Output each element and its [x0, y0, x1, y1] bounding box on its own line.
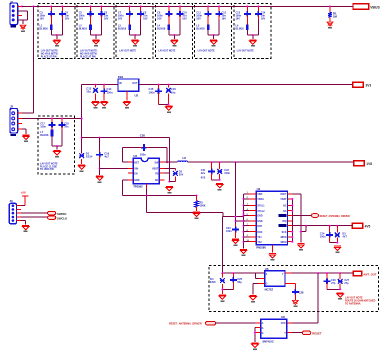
svg-text:30V: 30V — [179, 174, 184, 177]
wire — [159, 103, 169, 105]
svg-text:10n: 10n — [64, 125, 69, 128]
capacitor C23 — [235, 224, 237, 228]
svg-text:NC: NC — [155, 179, 159, 182]
ground (R1) — [327, 22, 333, 26]
ground (box 6) — [249, 39, 256, 40]
svg-text:LAY-OUT NOTE:: LAY-OUT NOTE: — [80, 50, 98, 53]
port RESET_ANT — [311, 214, 318, 218]
svg-text:BLM18: BLM18 — [40, 134, 49, 137]
node C24 top — [329, 225, 331, 227]
capacitor C25 — [230, 279, 237, 281]
wire cap join box 5 — [208, 34, 219, 36]
ground (box 3) — [132, 39, 139, 40]
node C17 top — [51, 117, 53, 119]
wire U6 gnd pins — [256, 327, 261, 329]
bead FB3 — [128, 24, 131, 30]
svg-text:VOUT: VOUT — [280, 194, 287, 196]
capacitor C14 — [255, 13, 262, 15]
port RESET — [302, 331, 311, 335]
node C19-pin2 — [99, 168, 101, 170]
node C7 top — [129, 5, 131, 7]
ground (C14) — [101, 101, 108, 102]
svg-text:10u: 10u — [86, 89, 91, 93]
wire — [254, 328, 256, 342]
svg-text:1M: 1M — [333, 15, 338, 19]
node C14 top — [103, 84, 105, 86]
node 1V8 to U4 — [235, 161, 237, 163]
node C18 top — [61, 117, 63, 119]
svg-text:J3: J3 — [10, 199, 14, 203]
svg-text:RESET: RESET — [312, 332, 322, 336]
ground (U2) — [123, 101, 130, 102]
wire — [221, 217, 223, 274]
ground (J3) — [22, 225, 29, 226]
wire row1 — [244, 193, 249, 195]
capacitor C27 — [338, 279, 343, 284]
ground (box 1) — [53, 39, 60, 40]
svg-text:BLM18: BLM18 — [118, 28, 127, 31]
capacitor C28 — [292, 291, 299, 293]
svg-text:NO VIAS BETW.: NO VIAS BETW. — [80, 52, 98, 55]
wire VBST to D2 — [164, 168, 175, 170]
decoupling group box 6 — [234, 4, 271, 59]
node C27 top — [339, 272, 341, 274]
wire pin4 — [18, 19, 28, 21]
svg-text:LAY-OUT NOTE: LAY-OUT NOTE — [198, 50, 215, 53]
ground (C24 D3) — [334, 246, 341, 247]
wire — [292, 225, 352, 227]
pin EPAD — [145, 184, 147, 189]
port SWDIO — [48, 211, 56, 214]
wire — [25, 221, 27, 225]
svg-text:TPS562: TPS562 — [133, 184, 143, 188]
ground (J1) — [20, 25, 26, 29]
svg-text:16V: 16V — [196, 17, 201, 20]
svg-text:U4: U4 — [257, 187, 261, 191]
wire — [99, 160, 101, 175]
capacitor C23 — [232, 229, 239, 231]
svg-text:RESET_ANTENNA_DRIVER: RESET_ANTENNA_DRIVER — [320, 215, 350, 218]
wire — [22, 20, 24, 24]
wire — [252, 283, 254, 294]
svg-text:1V8: 1V8 — [366, 162, 372, 166]
svg-text:NC7SZ: NC7SZ — [265, 287, 274, 291]
bead FB1 — [50, 24, 53, 30]
pin U6 — [287, 322, 292, 324]
antenna matching box — [209, 266, 379, 312]
node C13 top — [246, 5, 248, 7]
node D3 top — [336, 225, 338, 227]
svg-text:SWDIO: SWDIO — [57, 212, 67, 216]
wire cap leads box 3 — [129, 6, 131, 12]
svg-text:C28: C28 — [299, 291, 304, 294]
svg-text:EN: EN — [134, 172, 138, 175]
svg-text:16V: 16V — [143, 17, 148, 20]
wire cap leads box 1 — [50, 6, 52, 12]
svg-text:U3: U3 — [133, 154, 137, 158]
capacitor C10 — [176, 13, 183, 15]
ground (U5) — [250, 295, 257, 296]
svg-text:4V5: 4V5 — [365, 225, 371, 229]
svg-text:VBAT: VBAT — [280, 198, 287, 201]
ground (U4 rail) — [240, 249, 247, 250]
node C16 top — [168, 84, 170, 86]
connector J2 (4-pin header, mid-left) — [10, 109, 18, 134]
svg-text:100n: 100n — [40, 125, 46, 128]
wire — [292, 193, 301, 195]
wire — [164, 161, 177, 163]
svg-text:A: A — [266, 273, 268, 276]
wire to ground — [56, 35, 58, 39]
svg-text:C20: C20 — [140, 134, 146, 138]
node C8 top — [140, 5, 142, 7]
svg-text:16V: 16V — [118, 17, 123, 20]
port VBUS — [353, 4, 369, 10]
node to driver — [317, 272, 319, 274]
svg-text:FB: FB — [155, 172, 158, 175]
wire cap join box 2 — [91, 34, 102, 36]
wire VIN to C19 node — [100, 168, 129, 170]
svg-text:NC: NC — [283, 205, 287, 207]
wire — [82, 84, 118, 86]
ground (C13) — [92, 101, 99, 102]
wire inner loop right vertical — [166, 148, 168, 163]
svg-text:TX2: TX2 — [257, 242, 262, 244]
ground (box 4) — [171, 39, 178, 40]
node C6 top — [101, 5, 103, 7]
capacitor C11 — [205, 13, 212, 15]
op-amp U6 reset driver — [261, 319, 287, 338]
wire to ground — [213, 35, 215, 39]
pin U4 EPAD — [272, 245, 274, 253]
wire cap bottoms box 1 — [50, 16, 52, 25]
svg-text:IN: IN — [119, 82, 122, 85]
svg-text:22u: 22u — [201, 172, 206, 175]
port 4V5 — [352, 223, 362, 228]
connector J3 (5-pin) — [9, 203, 16, 223]
ground (D1) — [78, 165, 85, 166]
wire — [330, 242, 338, 244]
capacitor C21 — [208, 171, 215, 173]
svg-text:VBUS: VBUS — [370, 6, 380, 10]
capacitor C26 — [323, 280, 330, 282]
svg-text:GND: GND — [134, 179, 140, 182]
svg-text:+5V: +5V — [21, 191, 26, 195]
svg-text:RXN: RXN — [257, 232, 262, 234]
node left vertical feed — [33, 5, 35, 7]
ground (U6) — [251, 343, 258, 344]
wire cap leads box 6 — [246, 6, 248, 12]
svg-text:ANT_OUT: ANT_OUT — [363, 272, 376, 276]
svg-text:27p: 27p — [344, 282, 349, 285]
node C13 top — [95, 84, 97, 86]
wire — [253, 282, 258, 284]
wire cap bottoms box 3 — [129, 16, 131, 25]
wire EN vertical — [122, 180, 124, 196]
wire to ground — [173, 35, 175, 39]
svg-text:NO VIAS BETW.: NO VIAS BETW. — [41, 52, 59, 55]
svg-text:PN5180: PN5180 — [256, 245, 266, 249]
capacitor C22 (polarized) — [217, 169, 222, 174]
svg-text:RESET_ANTENNA_DRIVER: RESET_ANTENNA_DRIVER — [169, 322, 202, 325]
node C21 top — [211, 161, 213, 163]
decoupling group box 7 — [38, 116, 75, 174]
wire to U4 gnd rail — [236, 220, 244, 222]
wire — [327, 288, 340, 290]
wire to ground — [95, 35, 97, 39]
svg-text:BLM18: BLM18 — [40, 28, 49, 31]
svg-text:A: A — [262, 322, 264, 325]
node R1 top — [329, 5, 331, 7]
node RST tie — [305, 225, 307, 227]
wire — [139, 84, 353, 86]
ground (C21 C22) — [216, 183, 223, 184]
wire gnd rail jog — [222, 212, 224, 216]
svg-text:IRQ: IRQ — [282, 221, 286, 223]
wire — [292, 215, 311, 217]
svg-text:G: G — [262, 332, 264, 335]
wire — [21, 220, 26, 222]
svg-text:RXP: RXP — [257, 226, 262, 228]
wire cap join box 6 — [247, 34, 258, 36]
capacitor C20 (boot) — [143, 144, 145, 151]
wire — [82, 137, 170, 139]
capacitor C6 — [98, 13, 105, 15]
svg-text:GND: GND — [257, 221, 262, 223]
svg-text:16V: 16V — [236, 17, 241, 20]
capacitor C7 — [126, 13, 133, 15]
capacitor C4 — [59, 13, 66, 15]
diode D4 — [220, 278, 225, 283]
wire R1 lead — [329, 6, 331, 12]
svg-text:100n: 100n — [140, 152, 146, 156]
pin U2 ground — [126, 91, 128, 100]
svg-text:100n: 100n — [149, 90, 155, 94]
svg-text:BLM18: BLM18 — [196, 28, 205, 31]
diode D2 — [173, 171, 178, 176]
wire — [81, 85, 83, 153]
wire — [291, 272, 353, 274]
svg-text:LAY-OUT NOTE: LAY-OUT NOTE — [119, 50, 136, 53]
port 3V3 — [353, 82, 364, 87]
wire — [300, 194, 302, 243]
svg-text:BST: BST — [134, 161, 139, 164]
wire cap bottoms box 4 — [168, 16, 170, 25]
wire — [52, 145, 62, 147]
port SWCLK — [48, 216, 56, 219]
capacitor C16 (polarized) — [166, 88, 171, 93]
wire U5 vcc tie — [255, 273, 257, 278]
svg-text:SCK: SCK — [282, 232, 287, 234]
svg-text:U5: U5 — [265, 267, 269, 271]
svg-text:NC: NC — [283, 211, 287, 213]
diode D1 — [79, 153, 84, 158]
svg-text:FB1: FB1 — [118, 75, 124, 79]
node C10 top — [179, 5, 181, 7]
wire outer loop right vertical — [168, 138, 170, 182]
wire — [292, 332, 303, 334]
ground (box 7) — [54, 150, 61, 151]
node R2 top — [196, 195, 198, 197]
decoupling group box 5 — [195, 4, 232, 59]
wire — [216, 322, 256, 324]
pin U5 gnd — [258, 282, 265, 284]
svg-text:J2: J2 — [10, 104, 14, 108]
wire EPAD down — [145, 189, 147, 196]
capacitor C17 — [49, 124, 56, 126]
svg-text:SN74LVC: SN74LVC — [262, 340, 274, 344]
wire — [291, 199, 293, 242]
node C11 top — [207, 5, 209, 7]
ferrite/regulator U2 — [118, 79, 139, 91]
op-amp U5 buffer — [265, 271, 285, 287]
ground (box 2) — [93, 39, 100, 40]
svg-text:16V: 16V — [65, 17, 70, 20]
port RESET_ANT_DRV — [206, 321, 216, 325]
resistor R2 — [195, 201, 199, 207]
svg-text:100n: 100n — [107, 90, 113, 94]
svg-text:BLM18: BLM18 — [79, 28, 88, 31]
wire gnd rail — [147, 211, 223, 213]
ground (R2) — [193, 212, 200, 213]
svg-text:U6: U6 — [281, 315, 285, 319]
svg-text:4V7: 4V7 — [342, 236, 347, 239]
svg-text:ESD: ESD — [210, 280, 216, 284]
wire U4 left pin ties — [243, 198, 245, 200]
diode D3 — [335, 233, 340, 238]
capacitor C12 — [216, 13, 223, 15]
capacitor C3 — [48, 13, 55, 15]
svg-text:16V: 16V — [104, 17, 109, 20]
node C3 top — [50, 5, 52, 7]
node D2 anode — [168, 181, 170, 183]
svg-text:XTAL2: XTAL2 — [257, 210, 265, 213]
wire U5 out — [285, 272, 291, 274]
wire gnd rail to U4 — [223, 216, 244, 218]
pin U5 left2 — [260, 277, 265, 279]
node C14 top — [257, 5, 259, 7]
svg-text:16V: 16V — [40, 17, 45, 20]
wire EN — [123, 179, 129, 181]
op-amp U3 buck converter IC — [133, 158, 159, 184]
svg-text:GND: GND — [257, 216, 262, 218]
wire — [235, 162, 237, 224]
svg-text:U2: U2 — [135, 94, 139, 98]
wire cap leads box 5 — [207, 6, 209, 12]
bead FB2 — [89, 24, 92, 30]
decoupling group box 2 — [77, 4, 114, 59]
wire 1V8 rail — [188, 161, 354, 163]
wire top VBUS bus — [22, 5, 353, 7]
wire — [122, 147, 167, 149]
svg-text:4u7: 4u7 — [104, 155, 109, 159]
wire cap bottoms box 2 — [90, 16, 92, 25]
wire — [222, 272, 264, 274]
svg-text:TO VDD PIN: TO VDD PIN — [40, 168, 54, 171]
ground (U4 pad) — [269, 253, 276, 254]
capacitor C19 — [96, 154, 103, 156]
svg-text:OUT: OUT — [132, 82, 138, 85]
svg-text:SS14: SS14 — [86, 155, 93, 159]
wire U6 out1 — [292, 322, 318, 324]
wire — [21, 212, 48, 214]
bead FB6 — [246, 24, 249, 30]
svg-text:16V: 16V — [261, 17, 266, 20]
node C26 top — [326, 272, 328, 274]
capacitor C5 — [87, 13, 94, 15]
svg-text:MOSI: MOSI — [281, 242, 287, 244]
svg-text:16V: 16V — [79, 17, 84, 20]
capacitor C9 — [165, 13, 172, 15]
svg-text:6V3: 6V3 — [201, 177, 206, 180]
wire — [22, 112, 34, 114]
wire — [21, 205, 25, 207]
bead FB5 — [207, 24, 210, 30]
svg-text:100n: 100n — [224, 172, 230, 175]
svg-text:G: G — [266, 283, 268, 286]
node D4 top — [221, 272, 223, 274]
svg-text:LAY-OUT NOTE:: LAY-OUT NOTE: — [41, 50, 59, 53]
ground (C15 C16) — [165, 105, 172, 106]
wire — [255, 332, 256, 334]
svg-text:BLM18: BLM18 — [157, 28, 166, 31]
capacitor C14 — [101, 90, 108, 92]
node VBUS bus junction at J1 — [21, 5, 23, 7]
wire — [212, 179, 220, 181]
diode D1 on input vertical — [81, 152, 83, 154]
wire — [164, 172, 170, 174]
capacitor C13 — [244, 13, 251, 15]
node J2 rail to vertical — [81, 117, 83, 119]
inductor L8 — [178, 161, 188, 162]
svg-text:MISO: MISO — [281, 237, 287, 239]
node C19 top — [99, 137, 101, 139]
svg-text:VDD: VDD — [257, 194, 262, 196]
svg-text:PLACE AT PIN: PLACE AT PIN — [80, 55, 96, 58]
decoupling group box 4 — [155, 4, 192, 59]
connector J1 (4-pin header, top-left) — [10, 3, 18, 25]
capacitor C24 — [326, 234, 333, 236]
bead FB4 — [168, 24, 171, 30]
wire D2 to gnd node — [169, 181, 175, 183]
svg-text:100K: 100K — [200, 205, 206, 208]
wire to ground — [134, 35, 136, 39]
ground (D4) — [219, 294, 226, 295]
wire — [256, 277, 260, 279]
svg-text:LAY-OUT NOTE: LAY-OUT NOTE — [158, 50, 175, 53]
wire vertical pin2-pin4 — [27, 11, 29, 20]
wire gnd loop vertical — [146, 196, 148, 213]
wire — [317, 273, 319, 323]
decoupling group box 3 — [116, 4, 153, 59]
node C12 top — [218, 5, 220, 7]
resistor R1 — [328, 12, 332, 17]
capacitor C15 — [155, 90, 162, 92]
svg-text:XTAL1: XTAL1 — [257, 204, 265, 207]
ground (C28) — [292, 300, 298, 304]
port ANT — [353, 271, 362, 275]
port 1V8 — [354, 161, 364, 166]
ground (C26 C27) — [337, 292, 344, 293]
svg-text:TO ANTENNA: TO ANTENNA — [345, 303, 361, 306]
wire — [22, 128, 26, 130]
svg-text:TX1: TX1 — [257, 237, 262, 239]
wire cap bottoms box 5 — [207, 16, 209, 25]
wire cap bottoms box 6 — [246, 16, 248, 25]
node VIN loop — [81, 137, 83, 139]
ground (C23) — [232, 239, 239, 240]
wire cap leads box 4 — [168, 6, 170, 12]
